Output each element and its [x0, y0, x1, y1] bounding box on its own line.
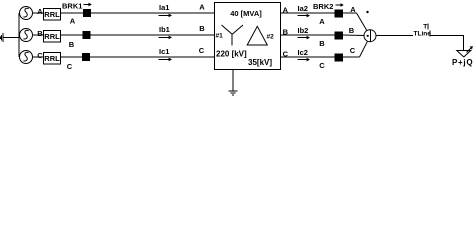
svg-text:C: C	[37, 51, 43, 60]
svg-text:A: A	[37, 7, 43, 16]
svg-text:BRK2: BRK2	[313, 2, 333, 11]
wire RRL to BRK1 phase A	[61, 12, 84, 14]
arrow Ia2	[298, 14, 311, 18]
svg-text:B: B	[69, 40, 75, 49]
impedance RRL phase A	[44, 9, 61, 21]
svg-text:C: C	[67, 62, 73, 71]
impedance RRL phase C	[44, 53, 61, 65]
svg-text:RRL: RRL	[44, 32, 60, 41]
wire diagonal C to breakout	[360, 41, 368, 57]
impedance RRL phase B	[44, 31, 61, 43]
node dot near A	[366, 11, 368, 13]
arrow Ic1	[159, 58, 173, 62]
source Es B	[20, 29, 33, 42]
svg-text:Ia1: Ia1	[159, 3, 169, 12]
breakout circle (3-phase to single line)	[364, 30, 376, 42]
svg-text:C: C	[199, 46, 205, 55]
svg-text:B: B	[319, 39, 325, 48]
arrow Ib2	[298, 36, 311, 40]
wire B source to RRL	[33, 34, 44, 36]
svg-text:A: A	[199, 2, 205, 11]
transformer delta winding symbol	[247, 26, 267, 45]
wire source bus	[18, 13, 20, 57]
breaker BRK2 phase B	[335, 32, 344, 40]
svg-text:#2: #2	[267, 33, 275, 40]
source Es A	[20, 7, 33, 20]
svg-text:B: B	[199, 24, 205, 33]
transformer wye winding symbol	[222, 25, 244, 46]
wire RRL to BRK1 phase B	[61, 34, 84, 36]
breaker BRK1 phase C	[82, 53, 90, 61]
svg-text:40 [MVA]: 40 [MVA]	[230, 9, 262, 18]
ground (left, rotated)	[0, 33, 3, 42]
svg-text:#1: #1	[216, 33, 224, 40]
svg-text:RRL: RRL	[44, 10, 60, 19]
source Es C	[20, 51, 33, 64]
svg-text:35[kV]: 35[kV]	[248, 58, 272, 67]
wire BRK2 to breakout phase A	[343, 12, 357, 14]
wire diagonal A to breakout	[357, 13, 367, 31]
wire BRK2 to breakout phase B	[343, 34, 364, 37]
svg-text:B: B	[37, 29, 43, 38]
wire corner down to load	[463, 36, 465, 51]
svg-text:Ic1: Ic1	[159, 47, 169, 56]
breaker BRK2 phase A	[335, 10, 344, 18]
transformer T1 box	[215, 3, 281, 70]
svg-text:A: A	[350, 5, 356, 14]
breaker BRK1 phase B	[83, 31, 91, 39]
svg-text:RRL: RRL	[44, 54, 60, 63]
wire BRK2 to breakout phase C	[343, 56, 360, 58]
wire TLine to corner	[430, 35, 464, 37]
ground (transformer neutral)	[229, 91, 238, 95]
arrow Ia1	[159, 14, 173, 18]
svg-text:Ib1: Ib1	[159, 25, 170, 34]
svg-text:Ia2: Ia2	[298, 4, 308, 13]
T-Line component TLine	[414, 30, 432, 37]
svg-text:C: C	[350, 46, 356, 55]
wire ground stub	[3, 37, 19, 39]
wire C source to RRL	[33, 56, 44, 58]
wire RRL to BRK1 phase C	[61, 56, 84, 58]
breaker BRK2 phase C	[335, 54, 344, 62]
wire BRK1 to transformer phase B	[91, 34, 215, 36]
wire transformer to BRK2 phase C	[280, 56, 335, 58]
arrow BRK1 state	[84, 3, 92, 7]
T-Line name flag	[423, 23, 428, 30]
wire transformer to BRK2 phase A	[280, 12, 335, 14]
svg-text:Ic2: Ic2	[298, 48, 308, 57]
svg-text:Ib2: Ib2	[298, 26, 309, 35]
svg-text:B: B	[349, 26, 355, 35]
wire breakout to TLine	[376, 35, 413, 37]
arrow Ib1	[159, 36, 173, 40]
wire transformer neutral	[232, 69, 234, 91]
wire A source to RRL	[33, 12, 44, 14]
arrow load	[467, 46, 474, 52]
svg-text:220 [kV]: 220 [kV]	[216, 49, 247, 58]
wire transformer to BRK2 phase B	[280, 34, 335, 36]
svg-text:A: A	[319, 17, 325, 26]
svg-text:A: A	[70, 16, 76, 25]
svg-text:BRK1: BRK1	[62, 1, 82, 10]
svg-text:TLine: TLine	[414, 30, 432, 37]
svg-text:C: C	[319, 61, 325, 70]
svg-text:P+jQ: P+jQ	[452, 58, 473, 67]
wire BRK1 to transformer phase A	[91, 12, 214, 14]
wire BRK1 to transformer phase C	[90, 56, 214, 58]
load (fixed P+jQ) triangle	[457, 51, 471, 58]
breaker BRK1 phase A	[83, 9, 91, 17]
arrow BRK2 state	[336, 3, 344, 7]
arrow Ic2	[298, 58, 311, 62]
